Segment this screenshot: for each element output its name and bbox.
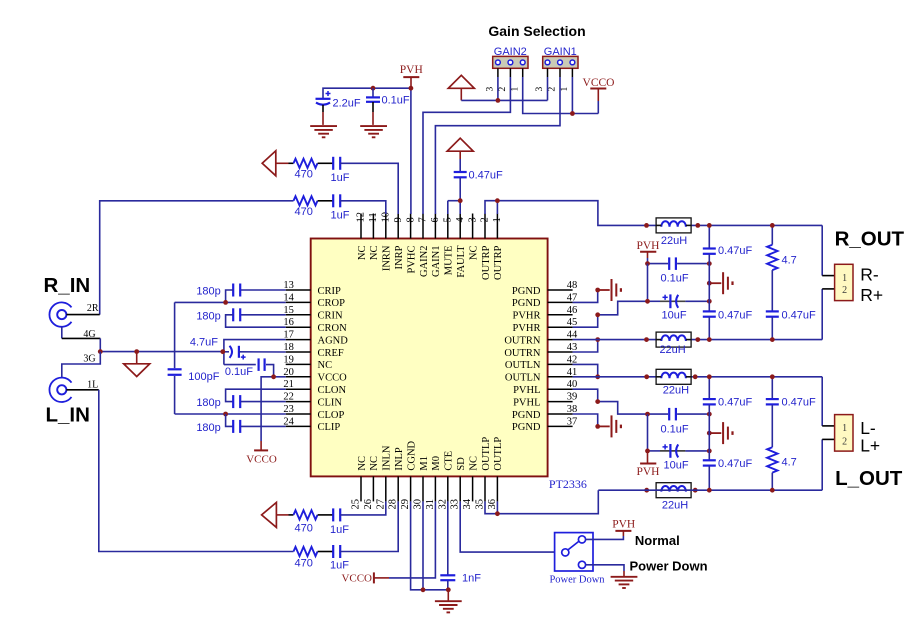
wire INLP to pin28 bbox=[340, 501, 398, 551]
pin 35 OUTLP (bottom) bbox=[484, 476, 486, 501]
inductor L1 22uH bbox=[656, 218, 691, 233]
svg-text:30: 30 bbox=[413, 499, 424, 510]
svg-text:CRON: CRON bbox=[318, 323, 348, 334]
svg-text:3: 3 bbox=[467, 217, 478, 222]
ground (bottom middle) bbox=[447, 590, 449, 601]
inductor L3 22uH bbox=[656, 369, 691, 384]
svg-text:OUTRN: OUTRN bbox=[504, 348, 541, 359]
svg-text:1uF: 1uF bbox=[331, 172, 350, 184]
wire INLN to pin27 bbox=[340, 501, 386, 515]
capacitor C24 0.47uF (L bottom) bbox=[703, 459, 716, 461]
svg-text:1: 1 bbox=[560, 87, 570, 92]
svg-text:26: 26 bbox=[363, 499, 374, 510]
svg-text:CREF: CREF bbox=[318, 348, 344, 359]
pin 36 OUTLP (bottom) bbox=[496, 476, 498, 501]
svg-text:470: 470 bbox=[295, 168, 313, 180]
svg-text:MUTE: MUTE bbox=[444, 246, 455, 276]
svg-text:0.1uF: 0.1uF bbox=[661, 423, 689, 435]
svg-text:L+: L+ bbox=[860, 435, 880, 455]
pin 26 NC (bottom) bbox=[372, 476, 374, 501]
junction CLOP bbox=[223, 412, 228, 417]
ground (R mid) bbox=[707, 281, 712, 286]
svg-text:VCCO: VCCO bbox=[246, 454, 277, 466]
power symbol PVH (L mid) bbox=[647, 451, 649, 457]
junction R filter top bbox=[707, 223, 712, 228]
inductor L2 22uH bbox=[656, 332, 691, 347]
svg-text:0.47uF: 0.47uF bbox=[718, 245, 753, 257]
svg-text:PVH: PVH bbox=[636, 466, 659, 478]
svg-text:PT2336: PT2336 bbox=[549, 477, 587, 491]
junction OUTRN bbox=[595, 337, 600, 342]
svg-text:NC: NC bbox=[318, 360, 333, 371]
pin 3 NC (top) bbox=[472, 214, 474, 239]
svg-text:0.1uF: 0.1uF bbox=[382, 95, 410, 107]
svg-text:PVH: PVH bbox=[400, 64, 423, 76]
capacitor C3 0.47uF (mute) bbox=[459, 159, 461, 172]
svg-text:29: 29 bbox=[400, 499, 411, 510]
capacitor C16 0.1uF (R) bbox=[648, 263, 669, 265]
capacitor C2 0.1uF (top) bbox=[372, 88, 374, 97]
wire AGND to bus bbox=[224, 340, 286, 365]
svg-text:PVHR: PVHR bbox=[512, 311, 540, 322]
pin 15 CRIN (left) bbox=[286, 314, 311, 316]
svg-text:NC: NC bbox=[369, 456, 380, 471]
pin 33 SD (bottom) bbox=[459, 476, 461, 501]
svg-text:0.47uF: 0.47uF bbox=[718, 397, 753, 409]
capacitor C13 1uF bbox=[318, 514, 333, 516]
pin 23 CLOP (left) bbox=[286, 413, 311, 415]
svg-text:CROP: CROP bbox=[318, 298, 346, 309]
pin 12 NC (top) bbox=[360, 214, 362, 239]
svg-text:CLOP: CLOP bbox=[318, 410, 345, 421]
wire M0 to VCCO bbox=[389, 501, 435, 578]
capacitor C4 1uF bbox=[318, 162, 333, 164]
svg-text:2: 2 bbox=[480, 217, 491, 222]
pin 8 PVHC (top) bbox=[410, 214, 412, 239]
svg-text:VCCO: VCCO bbox=[583, 77, 615, 89]
pin 2 OUTRP (top) bbox=[484, 214, 486, 239]
wire mute/fault net bbox=[459, 178, 461, 201]
pin 22 CLIN (left) bbox=[286, 401, 311, 403]
ground (switch) bbox=[611, 576, 638, 578]
wire L decouple vertical bbox=[647, 414, 649, 451]
svg-text:PVHL: PVHL bbox=[513, 385, 540, 396]
svg-text:0.47uF: 0.47uF bbox=[782, 397, 817, 409]
svg-text:4.7: 4.7 bbox=[782, 254, 797, 266]
pin 32 CTE (bottom) bbox=[447, 476, 449, 501]
svg-text:NC: NC bbox=[357, 246, 368, 261]
wire GAIN1 to IC pin6 bbox=[435, 77, 560, 214]
junction R 0.1uF bbox=[645, 261, 650, 266]
wire CROP row bbox=[175, 301, 286, 303]
svg-text:R_IN: R_IN bbox=[44, 274, 91, 297]
svg-text:L_IN: L_IN bbox=[46, 404, 90, 427]
pin 20 VCCO (left) bbox=[286, 376, 311, 378]
pin 1 OUTRP (top) bbox=[496, 214, 498, 239]
wire VCCO header net bbox=[523, 77, 599, 114]
svg-text:PVH: PVH bbox=[612, 518, 635, 530]
pin 45 PVHR (right) bbox=[548, 326, 573, 328]
pin 17 AGND (left) bbox=[286, 339, 311, 341]
capacitor C11 180p (CLIN) bbox=[226, 389, 286, 401]
resistor R2 470 bbox=[294, 196, 318, 205]
svg-text:470: 470 bbox=[295, 558, 313, 570]
svg-text:12: 12 bbox=[356, 212, 367, 223]
svg-text:L_OUT: L_OUT bbox=[835, 467, 903, 490]
junction OUTLN bbox=[595, 374, 600, 379]
svg-text:PVHC: PVHC bbox=[406, 246, 417, 274]
svg-text:4.7: 4.7 bbox=[782, 456, 797, 468]
wire L_IN to resistor R4 bbox=[99, 390, 294, 552]
junction CROP bbox=[223, 300, 228, 305]
input port triangle (INRP) bbox=[262, 151, 276, 176]
wire OUTLN row bbox=[573, 376, 823, 378]
resistor R5 4.7 bbox=[771, 225, 773, 244]
wire PGND pins 48/47 bbox=[573, 290, 598, 302]
svg-text:22uH: 22uH bbox=[662, 500, 688, 512]
capacitor C20 0.47uF (R right) bbox=[766, 310, 779, 312]
svg-text:180p: 180p bbox=[196, 422, 220, 434]
wire INRN to pin10 bbox=[340, 201, 386, 214]
wire OUTLN pins 42/41 bbox=[573, 364, 598, 376]
power symbol PVH (top) bbox=[403, 76, 419, 78]
ground (pins 38/37) bbox=[598, 425, 610, 427]
wire PGND pins 38/37 bbox=[573, 414, 598, 426]
capacitor C10 0.1uF (left) bbox=[224, 364, 256, 366]
junction R filter bottom bbox=[707, 337, 712, 342]
svg-text:22uH: 22uH bbox=[663, 384, 689, 396]
wire OUTRP row (top) bbox=[647, 224, 823, 226]
svg-text:4: 4 bbox=[455, 217, 466, 223]
svg-text:Power Down: Power Down bbox=[549, 575, 605, 586]
svg-text:100pF: 100pF bbox=[188, 371, 219, 383]
wire switch normal contact to PVH bbox=[586, 536, 624, 539]
svg-text:1uF: 1uF bbox=[331, 209, 350, 221]
pin 31 M0 (bottom) bbox=[434, 476, 436, 501]
svg-text:OUTRP: OUTRP bbox=[481, 245, 492, 280]
pin 27 INLN (bottom) bbox=[385, 476, 387, 501]
svg-text:CRIN: CRIN bbox=[318, 311, 344, 322]
resistor R4 470 bbox=[294, 547, 318, 556]
svg-text:22uH: 22uH bbox=[661, 235, 687, 247]
capacitor C5 1uF bbox=[318, 200, 333, 202]
svg-text:4.7uF: 4.7uF bbox=[190, 337, 218, 349]
wire PVHC pin8 vertical bbox=[410, 88, 412, 214]
svg-text:0.1uF: 0.1uF bbox=[661, 272, 689, 284]
svg-text:48: 48 bbox=[567, 280, 578, 291]
svg-text:37: 37 bbox=[567, 416, 578, 427]
svg-text:0.47uF: 0.47uF bbox=[718, 310, 753, 322]
svg-text:PGND: PGND bbox=[512, 422, 541, 433]
svg-text:25: 25 bbox=[351, 499, 362, 510]
junction VCCO header net bbox=[570, 111, 575, 116]
svg-text:CGND: CGND bbox=[406, 440, 417, 470]
svg-text:470: 470 bbox=[295, 522, 313, 534]
wire OUTRP net bbox=[485, 201, 647, 226]
wire CLOP row bbox=[175, 413, 286, 415]
svg-text:1: 1 bbox=[842, 273, 847, 284]
wire left vertical bus bbox=[174, 302, 176, 368]
svg-text:36: 36 bbox=[487, 499, 498, 510]
svg-text:CLON: CLON bbox=[318, 385, 347, 396]
svg-text:INRP: INRP bbox=[394, 245, 405, 269]
pin 43 OUTRN (right) bbox=[548, 351, 573, 353]
pin 10 INRN (top) bbox=[385, 214, 387, 239]
pin 34 NC (bottom) bbox=[472, 476, 474, 501]
svg-text:1uF: 1uF bbox=[330, 524, 349, 536]
svg-text:2.2uF: 2.2uF bbox=[333, 98, 361, 110]
junction L resistor top bbox=[770, 374, 775, 379]
pin 5 MUTE (top) bbox=[447, 214, 449, 239]
svg-text:9: 9 bbox=[393, 217, 404, 222]
svg-text:180p: 180p bbox=[196, 286, 220, 298]
junction pin20 bbox=[271, 374, 276, 379]
capacitor C12 180p (CLIP) bbox=[226, 414, 234, 426]
pin 13 CRIP (left) bbox=[286, 289, 311, 291]
wire OUTRN row bbox=[573, 339, 823, 341]
svg-text:CLIN: CLIN bbox=[318, 397, 343, 408]
junction L filter bottom bbox=[707, 488, 712, 493]
svg-text:19: 19 bbox=[283, 354, 294, 365]
power symbol VCCO (top) bbox=[597, 101, 599, 114]
wire PVHL pins 40/39 jog bbox=[573, 389, 598, 401]
svg-text:10uF: 10uF bbox=[664, 459, 689, 471]
pin 24 CLIP (left) bbox=[286, 425, 311, 427]
header pin stubs bbox=[497, 68, 499, 77]
pin 28 INLP (bottom) bbox=[397, 476, 399, 501]
svg-text:CLIP: CLIP bbox=[318, 422, 341, 433]
junction OUTRP bbox=[495, 198, 500, 203]
svg-text:3: 3 bbox=[486, 87, 496, 92]
junction PVHR bbox=[595, 312, 600, 317]
svg-text:28: 28 bbox=[388, 499, 399, 510]
svg-text:M0: M0 bbox=[431, 456, 442, 471]
wire PVHR pins 46/45 jog bbox=[573, 315, 598, 327]
svg-text:OUTLN: OUTLN bbox=[505, 360, 541, 371]
pin 39 PVHL (right) bbox=[548, 401, 573, 403]
capacitor C1 2.2uF (polarized) bbox=[326, 93, 331, 95]
resistor R1 470 bbox=[289, 162, 294, 164]
svg-text:OUTRP: OUTRP bbox=[493, 245, 504, 280]
svg-text:NC: NC bbox=[468, 246, 479, 261]
connector L_OUT header bbox=[822, 425, 834, 427]
capacitor C22 10uF (L, polarized) bbox=[648, 450, 661, 452]
junction gain pin3 bbox=[496, 98, 501, 103]
svg-text:0.47uF: 0.47uF bbox=[718, 458, 753, 470]
wire OUTRN pins 44/43 bbox=[573, 340, 598, 352]
svg-text:35: 35 bbox=[475, 499, 486, 510]
pin 30 M1 (bottom) bbox=[422, 476, 424, 501]
power symbol VCCO (below left network) bbox=[260, 441, 262, 450]
svg-text:NC: NC bbox=[357, 456, 368, 471]
ground (L mid) bbox=[707, 431, 712, 436]
junction on PVH rail bbox=[371, 86, 376, 91]
junction L resistor bottom bbox=[770, 488, 775, 493]
wire L output vertical bbox=[821, 377, 823, 426]
svg-text:VCCO: VCCO bbox=[341, 573, 372, 585]
svg-text:PGND: PGND bbox=[512, 286, 541, 297]
wire ground bus GND row bbox=[100, 351, 223, 353]
capacitor C15 1nF bbox=[447, 501, 449, 575]
svg-text:31: 31 bbox=[425, 499, 436, 510]
svg-text:AGND: AGND bbox=[318, 335, 349, 346]
inductor L4 22uH bbox=[656, 483, 691, 498]
junction PVHL bbox=[595, 399, 600, 404]
pin 29 CGND (bottom) bbox=[410, 476, 412, 501]
input port triangle (mute/fault) bbox=[447, 138, 473, 151]
svg-text:INLP: INLP bbox=[394, 447, 405, 470]
wire M1 pin30 bbox=[422, 501, 424, 589]
svg-text:R+: R+ bbox=[860, 285, 883, 305]
pin 41 OUTLN (right) bbox=[548, 376, 573, 378]
ground (below 2.2uF) bbox=[310, 125, 337, 127]
svg-text:2: 2 bbox=[842, 285, 847, 296]
pin 38 PGND (right) bbox=[548, 413, 573, 415]
svg-text:NC: NC bbox=[468, 456, 479, 471]
junction PGND R bbox=[595, 288, 600, 293]
switch SW1 Power Down bbox=[555, 533, 593, 571]
svg-text:180p: 180p bbox=[196, 397, 220, 409]
wire switch power-down contact to ground bbox=[586, 565, 624, 571]
wire GAIN2 to IC pin7 bbox=[423, 77, 510, 214]
svg-text:SD: SD bbox=[456, 457, 467, 471]
svg-text:2R: 2R bbox=[87, 303, 99, 314]
svg-text:180p: 180p bbox=[196, 310, 220, 322]
svg-text:1uF: 1uF bbox=[330, 560, 349, 572]
svg-text:1: 1 bbox=[510, 87, 520, 92]
pin 4 FAULT (top) bbox=[459, 214, 461, 239]
svg-text:FAULT: FAULT bbox=[456, 245, 467, 278]
svg-text:6: 6 bbox=[430, 217, 441, 222]
wire PVH rail bbox=[323, 88, 411, 98]
wire VCCO pin20 row bbox=[261, 377, 286, 441]
pin 18 CREF (left) bbox=[286, 351, 311, 353]
svg-text:22uH: 22uH bbox=[659, 344, 685, 356]
svg-text:OUTLP: OUTLP bbox=[481, 437, 492, 471]
svg-text:PVHL: PVHL bbox=[513, 397, 540, 408]
pin 7 GAIN2 (top) bbox=[422, 214, 424, 239]
pin 6 GAIN1 (top) bbox=[434, 214, 436, 239]
svg-text:11: 11 bbox=[368, 212, 379, 222]
junction R resistor top bbox=[770, 223, 775, 228]
junction R resistor bottom bbox=[770, 337, 775, 342]
pin 19 NC (left) bbox=[286, 363, 311, 365]
junction R 10uF bbox=[645, 299, 650, 304]
svg-text:OUTLN: OUTLN bbox=[505, 373, 541, 384]
capacitor C6 100pF bbox=[168, 368, 182, 370]
svg-text:PGND: PGND bbox=[512, 298, 541, 309]
svg-text:1nF: 1nF bbox=[462, 573, 481, 585]
pin 37 PGND (right) bbox=[548, 425, 573, 427]
pin 11 NC (top) bbox=[372, 214, 374, 239]
svg-text:GAIN1: GAIN1 bbox=[431, 246, 442, 278]
svg-text:R_OUT: R_OUT bbox=[835, 228, 905, 251]
capacitor C21 0.1uF (L) bbox=[648, 413, 669, 415]
junction 4G/3G bbox=[98, 349, 103, 354]
wire gain pin3 net bbox=[461, 99, 547, 101]
svg-text:3G: 3G bbox=[83, 353, 95, 364]
svg-text:PVH: PVH bbox=[636, 240, 659, 252]
svg-text:CRIP: CRIP bbox=[318, 286, 342, 297]
pin 25 NC (bottom) bbox=[360, 476, 362, 501]
junction M1-ground bbox=[421, 587, 426, 592]
power symbol PVH (switch) bbox=[622, 531, 624, 536]
pin 47 PGND (right) bbox=[548, 301, 573, 303]
junction L 0.1uF bbox=[645, 412, 650, 417]
svg-text:1: 1 bbox=[492, 217, 503, 222]
pin 48 PGND (right) bbox=[548, 289, 573, 291]
svg-text:Gain Selection: Gain Selection bbox=[488, 23, 585, 39]
wire R decouple vertical bbox=[647, 264, 649, 302]
ground (pins 48/47) bbox=[598, 289, 610, 291]
pin 9 INRP (top) bbox=[397, 214, 399, 239]
svg-text:470: 470 bbox=[295, 206, 313, 218]
svg-text:INLN: INLN bbox=[382, 445, 393, 470]
pin 21 CLON (left) bbox=[286, 388, 311, 390]
capacitor C14 1uF bbox=[318, 551, 333, 553]
wire INRP to pin9 bbox=[340, 163, 398, 214]
wire R_IN to resistor R2 bbox=[100, 201, 294, 315]
svg-text:2: 2 bbox=[548, 87, 558, 92]
svg-text:46: 46 bbox=[567, 305, 578, 316]
ground triangle (input common) bbox=[134, 349, 139, 354]
svg-text:0.1uF: 0.1uF bbox=[225, 366, 253, 378]
pin 46 PVHR (right) bbox=[548, 314, 573, 316]
svg-text:3: 3 bbox=[535, 87, 545, 92]
svg-text:39: 39 bbox=[567, 392, 578, 403]
svg-text:PVHR: PVHR bbox=[512, 323, 540, 334]
svg-text:2: 2 bbox=[842, 437, 847, 448]
capacitor C17 10uF (R, polarized) bbox=[648, 300, 661, 302]
input port triangle (gain common) bbox=[448, 75, 474, 88]
svg-text:M1: M1 bbox=[419, 456, 430, 471]
svg-text:5: 5 bbox=[443, 217, 454, 222]
junction L 10uF bbox=[645, 449, 650, 454]
svg-text:1L: 1L bbox=[87, 379, 98, 390]
svg-text:VCCO: VCCO bbox=[318, 373, 348, 384]
junction OUTLP bbox=[495, 511, 500, 516]
pin 44 OUTRN (right) bbox=[548, 339, 573, 341]
pin 16 CRON (left) bbox=[286, 326, 311, 328]
svg-text:7: 7 bbox=[418, 217, 429, 222]
svg-text:34: 34 bbox=[462, 498, 473, 509]
capacitor C18 0.47uF (R top) bbox=[708, 225, 710, 248]
pin 14 CROP (left) bbox=[286, 301, 311, 303]
wire R output vertical bbox=[821, 225, 823, 275]
svg-text:PGND: PGND bbox=[512, 410, 541, 421]
wire SD to switch bbox=[460, 501, 554, 552]
svg-text:GAIN2: GAIN2 bbox=[419, 246, 430, 278]
svg-text:INRN: INRN bbox=[382, 245, 393, 271]
junction L filter top bbox=[707, 374, 712, 379]
pin 40 PVHL (right) bbox=[548, 388, 573, 390]
svg-text:0.47uF: 0.47uF bbox=[782, 310, 817, 322]
junction PGND L bbox=[595, 424, 600, 429]
svg-text:CTE: CTE bbox=[444, 451, 455, 471]
junction CREF/AGND bus bbox=[220, 349, 225, 354]
svg-text:8: 8 bbox=[405, 217, 416, 222]
capacitor C25 0.47uF (L right) bbox=[771, 377, 773, 399]
svg-text:Power Down: Power Down bbox=[630, 559, 708, 574]
input port triangle (INLN) bbox=[262, 502, 277, 527]
svg-text:0.47uF: 0.47uF bbox=[469, 170, 504, 182]
svg-text:OUTRN: OUTRN bbox=[504, 335, 541, 346]
svg-text:2: 2 bbox=[498, 87, 508, 92]
svg-text:1: 1 bbox=[842, 423, 847, 434]
junction 1nF-ground bbox=[446, 587, 451, 592]
svg-text:R-: R- bbox=[860, 265, 879, 285]
svg-text:10uF: 10uF bbox=[662, 309, 687, 321]
